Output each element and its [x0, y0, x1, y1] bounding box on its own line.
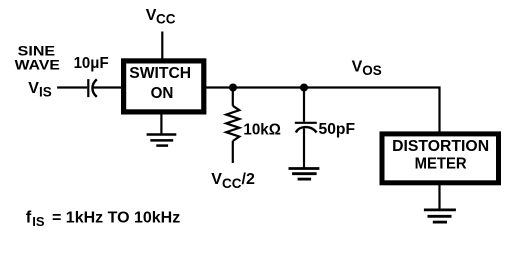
ground under switch	[147, 112, 177, 146]
distortion meter box	[382, 134, 499, 183]
junction node B	[300, 84, 308, 92]
label VOS	[352, 58, 382, 78]
svg-text:ON: ON	[151, 85, 174, 102]
svg-text:SWITCH: SWITCH	[129, 65, 191, 82]
svg-text:DISTORTION: DISTORTION	[392, 138, 489, 155]
svg-text:METER: METER	[415, 156, 467, 173]
capacitor C1	[88, 79, 97, 97]
label fIS frequency	[26, 208, 180, 229]
svg-text:10kΩ: 10kΩ	[243, 121, 281, 138]
svg-text:CC: CC	[156, 12, 176, 27]
svg-text:V: V	[352, 58, 363, 75]
ground under C2	[289, 169, 320, 180]
wire switch output to distortion meter	[204, 88, 440, 134]
resistor R1	[226, 88, 239, 164]
svg-text:V: V	[211, 171, 222, 188]
svg-text:f: f	[26, 208, 32, 226]
svg-text:OS: OS	[362, 63, 382, 78]
svg-text:WAVE: WAVE	[15, 56, 60, 72]
ground under distortion meter	[424, 183, 456, 222]
wire VIS to C1	[57, 86, 87, 88]
svg-text:50pF: 50pF	[319, 121, 356, 138]
junction node A	[229, 84, 237, 92]
label SINE WAVE	[15, 43, 60, 73]
svg-text:IS: IS	[32, 214, 45, 229]
node VCC/2	[211, 171, 255, 191]
switch box U1	[124, 61, 204, 112]
svg-text:CC: CC	[222, 176, 242, 191]
svg-text:10μF: 10μF	[74, 55, 109, 72]
svg-text:V: V	[28, 80, 39, 97]
svg-text:IS: IS	[39, 84, 52, 99]
svg-text:/2: /2	[242, 171, 255, 188]
wire VCC to switch box	[161, 32, 163, 62]
svg-text:= 1kHz TO 10kHz: = 1kHz TO 10kHz	[52, 209, 180, 226]
capacitor C2	[295, 88, 317, 169]
wire C1 to switch box	[93, 86, 126, 88]
node VIS	[28, 80, 52, 99]
node VCC	[146, 7, 176, 27]
